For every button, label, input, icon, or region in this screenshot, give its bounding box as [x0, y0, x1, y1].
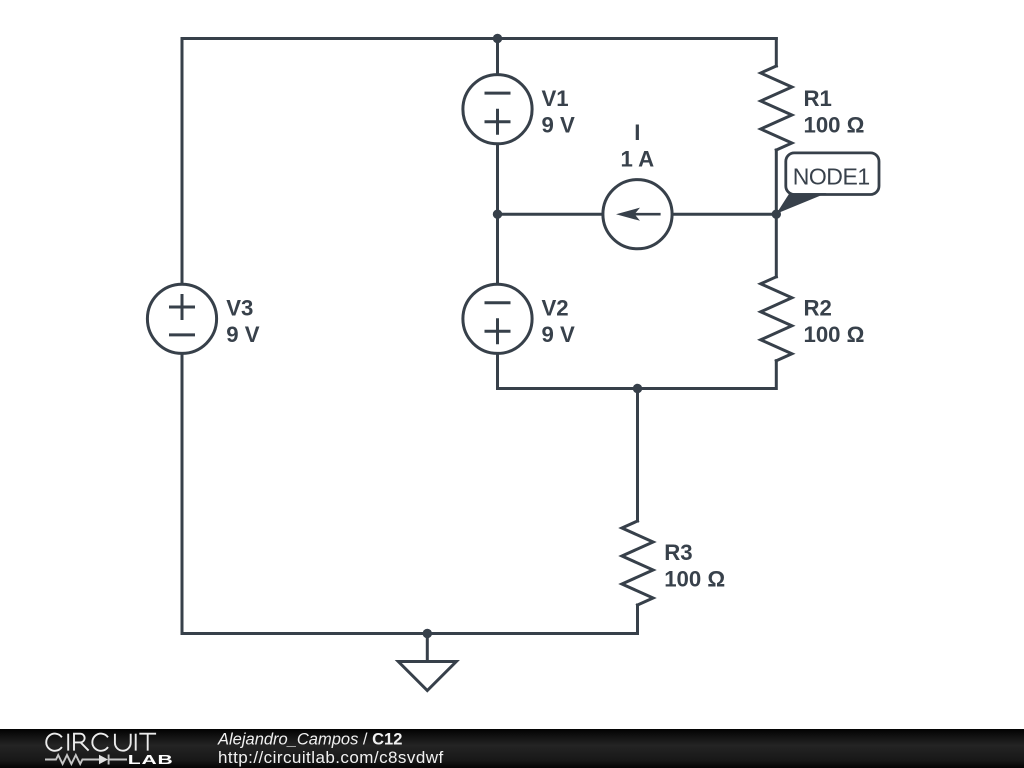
wire R3 bottom to ground rail	[182, 353, 638, 633]
wire current source to NODE1	[672, 213, 776, 216]
V2 plus sign	[486, 320, 509, 343]
svg-text:9 V: 9 V	[542, 322, 576, 347]
node flag NODE1	[776, 153, 879, 214]
svg-text:100 Ω: 100 Ω	[804, 322, 865, 347]
svg-text:R2: R2	[804, 296, 832, 321]
resistor R2	[761, 277, 792, 361]
voltage source V1	[463, 75, 532, 144]
V1 plus sign	[486, 110, 509, 133]
svg-text:NODE1: NODE1	[793, 164, 870, 190]
svg-text:Alejandro_Campos / C12: Alejandro_Campos / C12	[217, 730, 402, 748]
wire V2 top stub	[496, 214, 499, 284]
resistor R1	[761, 66, 792, 150]
V1 minus sign	[486, 92, 509, 95]
voltage source V3	[147, 284, 216, 353]
svg-text:LAB: LAB	[128, 752, 174, 767]
wire V1 bottom to mid node	[496, 144, 499, 214]
junction dot ground rail	[423, 629, 432, 638]
wire R2 top stub	[775, 214, 778, 277]
CircuitLab logo resistor-diode squiggle	[45, 755, 127, 765]
wire mid node to current source	[498, 213, 603, 216]
wire top rail from V3 to R1	[182, 39, 776, 285]
svg-text:V1: V1	[542, 86, 569, 111]
svg-text:I: I	[634, 120, 640, 145]
V3 minus sign	[171, 333, 194, 336]
svg-text:R3: R3	[664, 540, 692, 565]
V3 plus sign	[171, 296, 194, 319]
wire R3 top stub	[636, 389, 639, 522]
wire V1 top stub	[496, 39, 499, 75]
svg-text:http://circuitlab.com/c8svdwf: http://circuitlab.com/c8svdwf	[218, 748, 444, 767]
wire R1 bottom stub	[775, 150, 778, 214]
current source arrow shaft	[634, 213, 659, 216]
junction dot top (V1/top rail)	[493, 34, 502, 43]
node NODE1 junction dot	[772, 210, 781, 219]
voltage source V2	[463, 284, 532, 353]
resistor R3	[622, 521, 653, 605]
svg-text:9 V: 9 V	[542, 112, 576, 137]
current source arrowhead	[616, 208, 640, 221]
current source I	[603, 180, 672, 249]
svg-text:100 Ω: 100 Ω	[804, 112, 865, 137]
svg-text:V3: V3	[226, 296, 253, 321]
CircuitLab logo wordmark CIRCUIT (drawn thin geometric letters)	[46, 734, 156, 751]
wire V2 bottom to lower rail	[498, 353, 777, 388]
ground symbol	[398, 634, 456, 691]
svg-text:9 V: 9 V	[226, 322, 260, 347]
svg-text:1 A: 1 A	[620, 146, 654, 171]
junction dot lower rail / R3	[633, 384, 642, 393]
svg-text:R1: R1	[804, 86, 832, 111]
junction dot mid (V1/V2/I)	[493, 210, 502, 219]
svg-text:100 Ω: 100 Ω	[664, 567, 725, 592]
svg-text:V2: V2	[542, 296, 569, 321]
V2 minus sign	[486, 301, 509, 304]
